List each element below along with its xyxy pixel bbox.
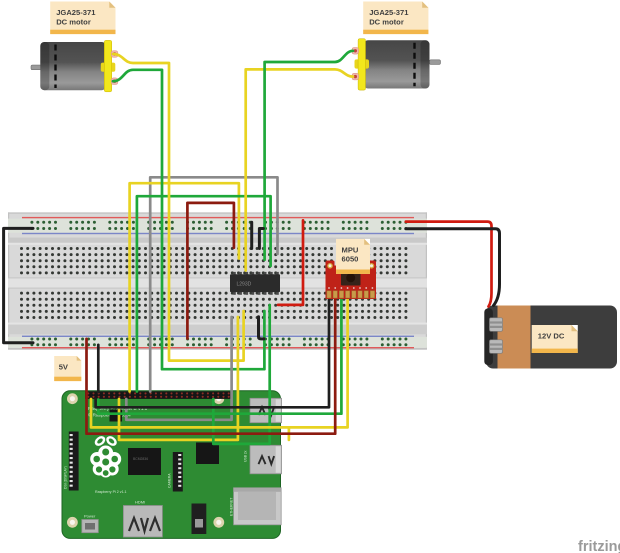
wire green Pi jumper [213,305,269,444]
wire green MPU SCL [98,297,341,414]
ethernet port [234,488,282,525]
mounting hole [213,393,224,404]
battery 12V [484,306,617,369]
wire yellow MPU SDA [91,297,348,428]
svg-text:5V: 5V [59,363,69,372]
mounting hole [213,517,224,528]
svg-text:DC motor: DC motor [56,17,91,26]
silkscreen text [64,406,248,519]
wire black jumper A [250,222,253,248]
raspberry logo [90,434,121,477]
wire green motor1 lead [113,70,264,369]
wire gray GPIO loop [150,177,277,391]
HDMI port [123,506,162,538]
svg-text:6050: 6050 [342,255,359,264]
svg-text:12V DC: 12V DC [538,332,565,341]
breadboard [8,212,427,349]
mounting hole [67,517,78,528]
svg-text:DSI (DISPLAY): DSI (DISPLAY) [64,466,68,489]
wire maroon MPU VCC [87,297,336,434]
USB port 2 [250,445,282,474]
svg-text:CAMERA: CAMERA [168,473,172,488]
mounting hole [67,393,78,404]
wire red 12V supply jumper [278,220,303,305]
SoC chip [128,448,161,475]
micro USB power [82,520,99,533]
svg-text:BCM2836: BCM2836 [133,457,148,461]
wire yellow GPIO loop [130,183,239,391]
wire gray Pi jumper [126,317,231,420]
svg-text:Raspberry Pi 2 v1.1: Raspberry Pi 2 v1.1 [95,490,127,494]
wire green GPIO loop [137,196,271,391]
audio jack [192,504,207,535]
MPU-6050 breakout board [326,261,377,300]
note: JGA25-371 DC motor (right) [363,2,428,35]
note: JGA25-371 DC motor (left) [50,2,115,35]
wire black MPU GND [96,297,329,408]
wire yellow Pi jumper [119,317,238,440]
note: MPU 6050 [336,239,370,274]
IC L293D [230,272,280,295]
USB/LAN chip [196,443,219,465]
wire red battery lead [406,222,492,307]
raspberry pi board [62,391,281,539]
wire black jumper B [259,229,263,249]
note: 5V [54,356,81,381]
svg-text:ETHERNET: ETHERNET [230,498,234,516]
svg-text:L293D: L293D [237,282,252,288]
wire green motor2 lead [265,51,353,260]
svg-text:JGA25-371: JGA25-371 [56,8,96,17]
wire black jumper C [259,317,265,339]
motor M1 (JGA25-371) [31,40,118,91]
svg-text:JGA25-371: JGA25-371 [369,8,409,17]
USB port 1 [250,398,282,422]
PMIC chip [110,410,123,422]
GPIO header J8 [85,391,232,399]
CSI camera connector [173,452,183,492]
svg-text:MPU: MPU [342,246,359,255]
wire yellow jog [288,427,291,440]
DSI display connector [69,432,79,491]
fritzing watermark [578,539,620,553]
wire black battery lead [406,229,500,306]
motor M2 (JGA25-371) [352,39,441,90]
note: 12V DC [532,325,578,353]
wire black rail jumper left [4,228,33,342]
svg-text:fritzing: fritzing [578,539,620,553]
wire black rail-to-GPIO [97,345,100,392]
svg-text:USB 2x: USB 2x [244,450,248,462]
svg-text:Power: Power [84,514,96,519]
wire yellow motor2 lead [246,69,353,270]
wire yellow motor1 lead [113,54,244,361]
svg-text:HDMI: HDMI [135,500,145,505]
svg-text:DC motor: DC motor [369,17,404,26]
wire maroon 12V jumper [187,203,234,339]
